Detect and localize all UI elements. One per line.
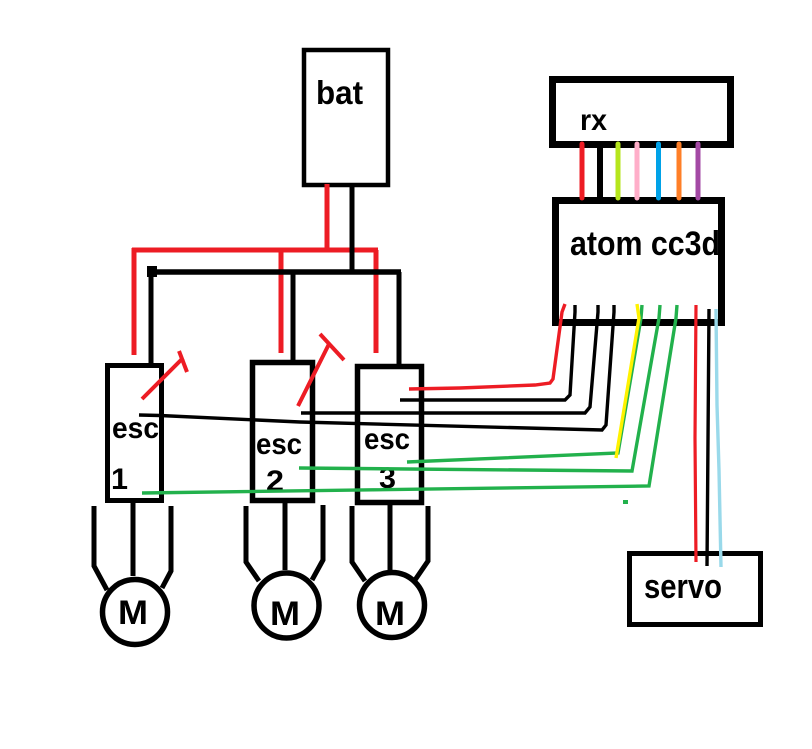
svg-text:M: M — [270, 595, 300, 633]
motor3 wire right — [415, 506, 428, 580]
svg-text:esc: esc — [364, 423, 410, 456]
wire black power bus — [149, 269, 401, 275]
rx-cc3d wire pink — [635, 144, 640, 198]
wire red power bus — [132, 248, 378, 253]
motor1 wire right — [162, 506, 171, 588]
wire red drop to esc2 — [279, 250, 284, 353]
motor M2 — [254, 573, 319, 638]
svg-text:esc: esc — [256, 428, 302, 461]
motor1 wire left — [94, 506, 107, 590]
red arrow mark at esc2 — [298, 334, 344, 406]
signal wire green esc2 to cc3d — [299, 305, 660, 471]
motor M3 — [360, 573, 425, 638]
motor3 wire middle — [388, 503, 393, 570]
servo wire black — [707, 309, 709, 566]
rx-cc3d wire orange — [677, 144, 682, 198]
signal wire black2 esc2 to cc3d — [301, 305, 598, 413]
signal wire red esc3 to cc3d — [409, 304, 565, 389]
rx-cc3d wire red — [580, 144, 585, 198]
svg-text:M: M — [375, 595, 405, 633]
motor2 wire left — [246, 506, 259, 581]
servo wire light blue — [716, 309, 721, 567]
motor3 wire left — [352, 506, 365, 581]
motor M1 — [103, 580, 168, 645]
esc box ESC2 — [253, 363, 313, 501]
wire black drop to esc2 — [291, 272, 296, 362]
wire battery positive red — [325, 184, 330, 251]
motor2 wire middle — [283, 503, 288, 570]
svg-text:M: M — [118, 594, 148, 632]
battery box BAT — [304, 50, 388, 185]
svg-text:atom cc3d: atom cc3d — [570, 225, 720, 263]
svg-text:rx: rx — [580, 104, 607, 137]
servo wire red — [695, 305, 696, 562]
receiver box RX — [553, 80, 731, 145]
svg-text:bat: bat — [316, 74, 363, 111]
esc box ESC1 — [108, 366, 162, 501]
junction dot on black bus — [147, 266, 157, 277]
rx-cc3d wire purple — [696, 144, 701, 198]
servo box — [630, 554, 761, 625]
rx-cc3d wire black — [597, 141, 603, 199]
wire red drop to esc1 — [132, 248, 137, 355]
svg-text:servo: servo — [644, 568, 722, 606]
signal wire black1 esc3 to cc3d — [400, 305, 575, 400]
rx-cc3d wire lime — [616, 144, 621, 198]
motor1 wire middle — [131, 501, 136, 576]
wire black drop to esc1 — [149, 269, 154, 363]
esc box ESC3 — [358, 367, 422, 503]
flight controller box ATOM CC3D — [556, 201, 722, 323]
signal wire green esc1 to cc3d — [142, 305, 677, 493]
yellow wire alongside green — [616, 304, 639, 458]
svg-text:2: 2 — [266, 465, 284, 498]
motor2 wire right — [312, 505, 323, 580]
wire battery negative black — [350, 186, 355, 272]
red arrow mark at esc1 — [142, 351, 187, 399]
green paint dot — [623, 500, 628, 504]
rx-cc3d wire blue — [656, 144, 661, 198]
wire black drop to esc3 — [397, 272, 402, 365]
wire red drop to esc3 — [374, 250, 379, 353]
svg-text:1: 1 — [111, 463, 128, 496]
signal wire green esc3 to cc3d — [407, 305, 642, 462]
signal wire black3 esc1 to cc3d — [139, 305, 614, 430]
